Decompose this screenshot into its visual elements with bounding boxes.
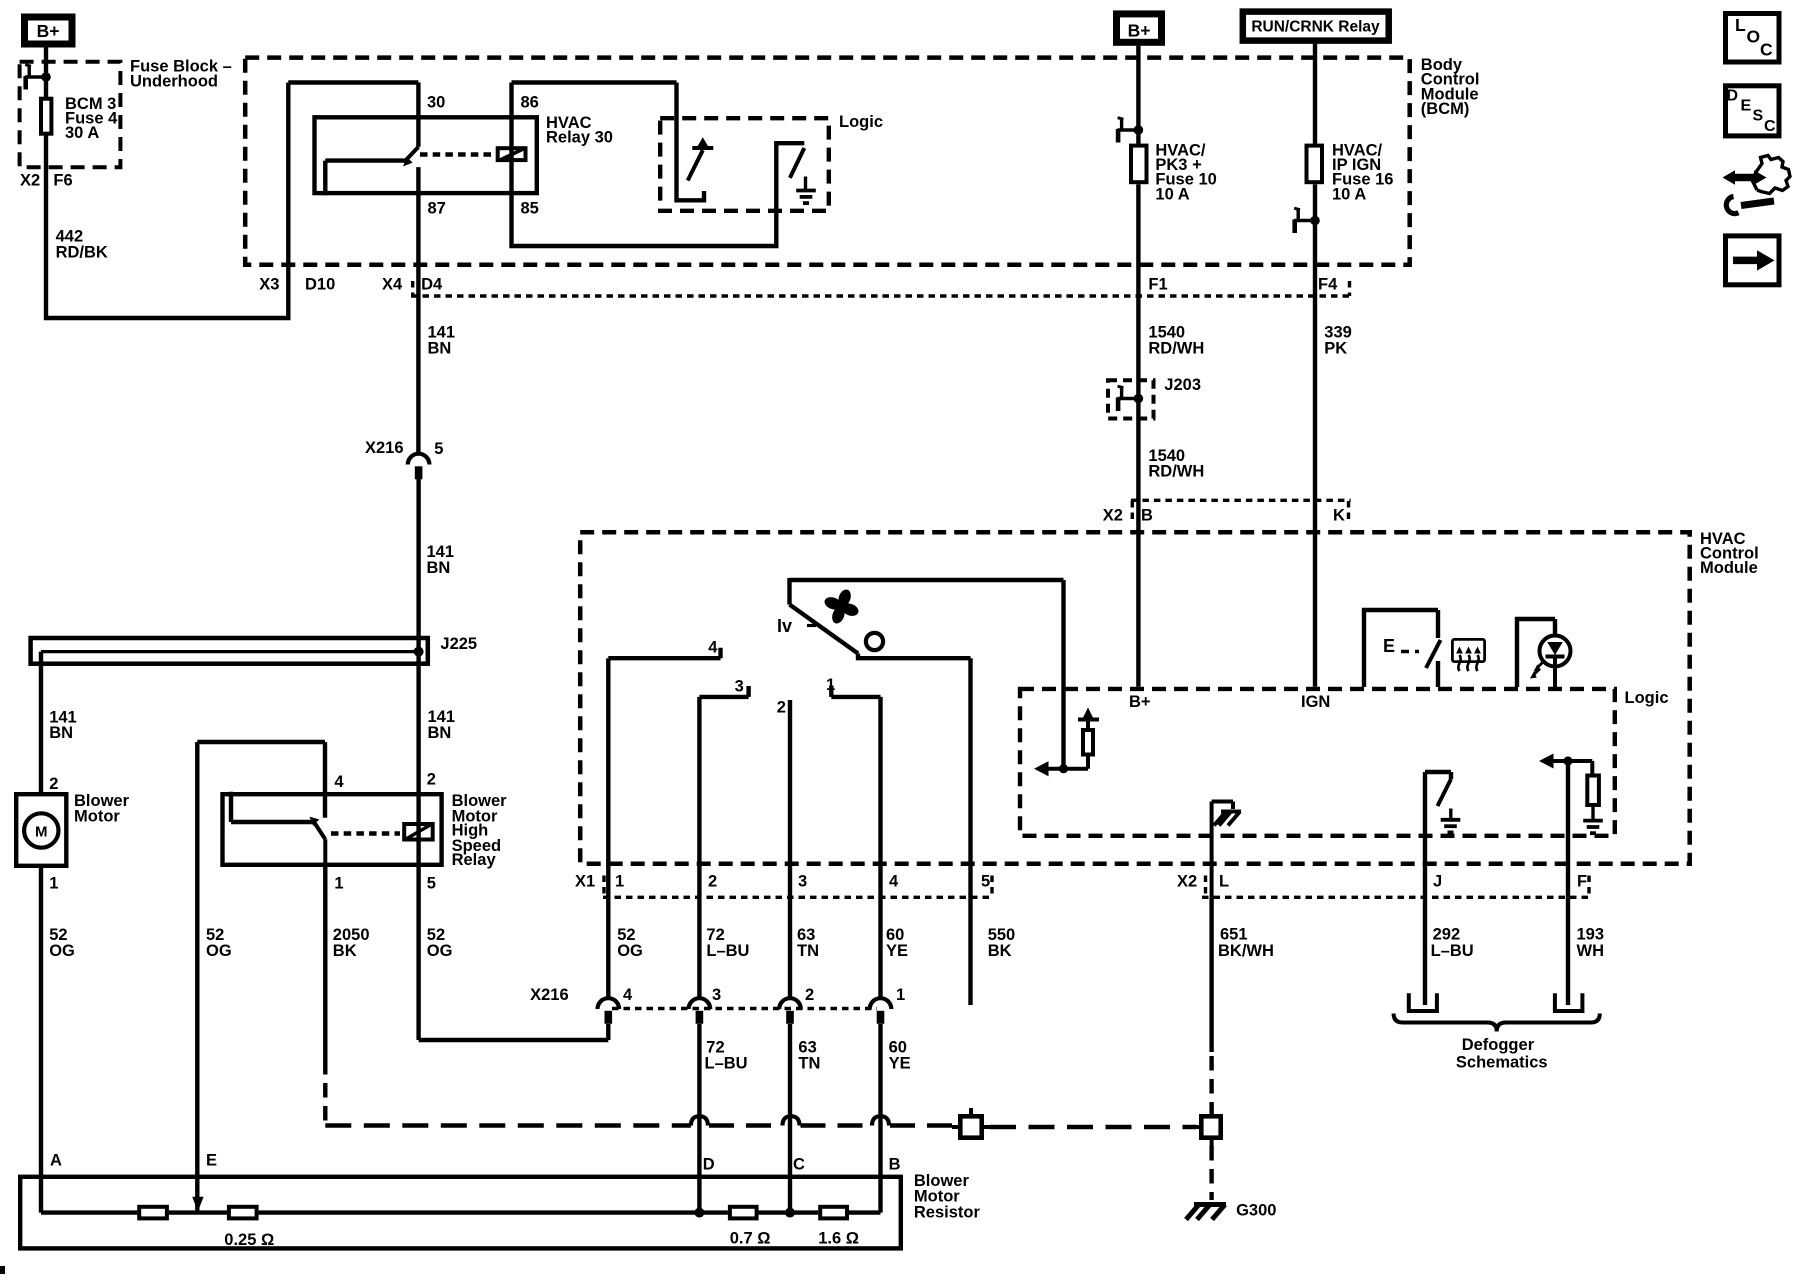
svg-text:J: J bbox=[1433, 873, 1442, 891]
splice J203 dashed box bbox=[1108, 380, 1154, 418]
svg-text:F4: F4 bbox=[1318, 276, 1338, 294]
resistor element 0.25 ohm bbox=[229, 1207, 257, 1219]
label F1 bbox=[1148, 276, 1167, 294]
defogger indicator LED bbox=[1517, 619, 1571, 687]
pull-up resistor to B+ in logic bbox=[1064, 708, 1100, 769]
label 72 L-BU lower bbox=[705, 1038, 748, 1072]
battery feed B+ terminal (BCM) bbox=[1117, 14, 1162, 42]
svg-text:PK: PK bbox=[1324, 340, 1347, 358]
label 52 OG E bbox=[206, 926, 232, 960]
label 63 TN (X1-3) bbox=[797, 926, 819, 960]
svg-text:YE: YE bbox=[889, 1055, 911, 1073]
label F4 bbox=[1318, 276, 1338, 294]
wire 63 TN (switch 2 to X1-3) bbox=[788, 710, 792, 997]
wire 193 path inside logic bbox=[1566, 761, 1570, 897]
svg-text:L: L bbox=[1219, 873, 1229, 891]
svg-text:X1: X1 bbox=[575, 873, 595, 891]
label 0.25 ohm bbox=[224, 1231, 274, 1249]
label contact 4 bbox=[708, 639, 718, 657]
label HVAC Control Module bbox=[1700, 530, 1759, 577]
svg-text:J225: J225 bbox=[440, 635, 477, 653]
label pin 87 bbox=[428, 200, 446, 218]
fan switch contact 4 bbox=[608, 648, 720, 659]
HVAC logic dashed box bbox=[1020, 689, 1615, 836]
wire 2050 BK bbox=[323, 867, 327, 1060]
svg-text:BN: BN bbox=[428, 340, 452, 358]
HVAC relay 30 outer box part1 (pin86 side) bbox=[512, 83, 705, 201]
label X216 single bbox=[365, 439, 443, 458]
wire dashed between squares bbox=[990, 1125, 1196, 1129]
label 72 L-BU (X1-2) bbox=[706, 926, 749, 960]
svg-text:TN: TN bbox=[798, 1055, 820, 1073]
svg-text:D: D bbox=[703, 1156, 715, 1174]
fuse block underhood dashed box bbox=[20, 62, 121, 167]
label 60 YE lower bbox=[889, 1038, 911, 1072]
svg-text:M: M bbox=[35, 823, 48, 840]
label 60 YE (X1-4) bbox=[886, 926, 908, 960]
svg-text:S: S bbox=[1753, 107, 1764, 124]
svg-text:Resistor: Resistor bbox=[914, 1204, 981, 1222]
wire 60 YE (switch 1 to X1-4) bbox=[878, 697, 882, 997]
fan icon bbox=[819, 584, 865, 630]
BCM logic dashed box bbox=[660, 118, 829, 211]
label Blower Motor Resistor bbox=[914, 1172, 981, 1222]
wire 52 OG (resistor E to relay 4) bbox=[197, 742, 325, 1213]
svg-text:X2: X2 bbox=[1177, 873, 1197, 891]
svg-text:2: 2 bbox=[805, 986, 814, 1004]
fuse BCM 3 Fuse 4 30A bbox=[41, 99, 51, 134]
connector labels X2 B K bbox=[1103, 507, 1345, 525]
svg-text:5: 5 bbox=[427, 875, 436, 893]
svg-text:Schematics: Schematics bbox=[1456, 1054, 1548, 1072]
defogger terminal F bbox=[1555, 993, 1583, 1011]
terminal square S201 bbox=[952, 1108, 990, 1138]
wire 193 WH bbox=[1566, 897, 1570, 1005]
wire 1540 RD/WH fuse10 to HVAC logic bbox=[1136, 184, 1140, 687]
svg-text:X2: X2 bbox=[1103, 507, 1123, 525]
wire 72 L-BU (X216 to resistor D) bbox=[697, 1024, 701, 1213]
X2 connector dashed row bbox=[1202, 896, 1591, 899]
svg-text:E: E bbox=[1741, 97, 1752, 114]
svg-text:B+: B+ bbox=[1128, 21, 1151, 41]
svg-text:86: 86 bbox=[521, 94, 539, 112]
svg-text:1: 1 bbox=[49, 875, 58, 893]
resistor chain wire bbox=[41, 1210, 881, 1214]
fan switch contact 1 bbox=[831, 686, 880, 697]
svg-text:10 A: 10 A bbox=[1155, 185, 1189, 203]
label 193 WH bbox=[1577, 925, 1605, 960]
X1 connector dashed row bbox=[603, 896, 994, 899]
wire 651 BK/WH bbox=[1209, 897, 1213, 1114]
label fuse BCM 3 bbox=[65, 95, 118, 142]
icon DESC bbox=[1726, 86, 1780, 136]
label 52 OG motor bbox=[49, 926, 75, 960]
wire 52 OG (switch 4 to X1-1) bbox=[606, 658, 610, 997]
bracket X1 bbox=[602, 876, 605, 898]
HVAC Control Module dashed box bbox=[580, 532, 1690, 864]
svg-text:2: 2 bbox=[777, 699, 786, 717]
connector X216-1 bbox=[870, 998, 892, 1024]
splice bar J225 bbox=[31, 638, 428, 664]
svg-text:C: C bbox=[1764, 118, 1776, 135]
X216 row dashed link bbox=[612, 1007, 877, 1010]
svg-text:BN: BN bbox=[428, 724, 452, 742]
label relay pin 4 bbox=[334, 773, 344, 791]
svg-text:J203: J203 bbox=[1164, 376, 1201, 394]
wire dashed 550 to ground run bbox=[325, 1060, 952, 1126]
svg-text:D: D bbox=[1727, 87, 1739, 104]
svg-text:1: 1 bbox=[896, 986, 905, 1004]
label 63 TN lower bbox=[798, 1038, 820, 1072]
fan switch contact 3 bbox=[699, 686, 748, 697]
label Body Control Module BCM bbox=[1421, 56, 1480, 118]
label 1540 RD/WH lower bbox=[1148, 447, 1204, 481]
svg-text:OG: OG bbox=[617, 942, 643, 960]
svg-text:4: 4 bbox=[708, 639, 718, 657]
svg-text:X216: X216 bbox=[530, 986, 569, 1004]
wire 442 RD/BK bbox=[46, 83, 418, 319]
label Fuse Block Underhood bbox=[130, 58, 232, 91]
wire 141 BN to blower motor bbox=[39, 652, 43, 792]
label pin 86 bbox=[521, 94, 539, 112]
wire RUN/CRNK to fuse 16 bbox=[1313, 44, 1317, 144]
label Defogger Schematics bbox=[1456, 1036, 1548, 1072]
fan switch wiper blade bbox=[790, 578, 971, 658]
take-off clip at B+ feed bbox=[25, 65, 51, 90]
svg-text:2: 2 bbox=[708, 873, 717, 891]
svg-text:Relay: Relay bbox=[452, 851, 497, 869]
svg-text:YE: YE bbox=[886, 942, 908, 960]
wire dashed to G300 bbox=[1209, 1146, 1213, 1200]
X2 B K connector dashed row bbox=[1131, 500, 1351, 519]
svg-text:D10: D10 bbox=[305, 276, 335, 294]
svg-text:TN: TN bbox=[797, 942, 819, 960]
wire 60 YE (X216 to resistor B) bbox=[878, 1024, 882, 1213]
svg-text:RD/WH: RD/WH bbox=[1148, 340, 1204, 358]
label 651 BK/WH bbox=[1218, 925, 1274, 960]
svg-text:Iv: Iv bbox=[777, 616, 792, 636]
wire B+ to fuse 10 bbox=[1136, 46, 1140, 144]
chassis ground L output bbox=[1212, 802, 1241, 898]
fan switch rotor terminal circle bbox=[866, 633, 883, 650]
svg-text:5: 5 bbox=[981, 873, 990, 891]
svg-text:BK: BK bbox=[333, 942, 357, 960]
defogger switch E bbox=[1364, 610, 1441, 687]
svg-text:B: B bbox=[889, 1156, 901, 1174]
wire 141 BN (X216 to J225) bbox=[416, 479, 420, 652]
label 442 RD/BK bbox=[56, 227, 108, 261]
relay coil HVAC Relay 30 bbox=[498, 148, 526, 160]
connector X216-4 bbox=[598, 998, 620, 1024]
label X216 row bbox=[530, 986, 569, 1004]
wire relay pin 87 (141 BN) bbox=[416, 167, 420, 452]
label 141 BN mid bbox=[427, 543, 455, 577]
label IGN (logic) bbox=[1301, 693, 1330, 711]
svg-text:L–BU: L–BU bbox=[1431, 942, 1474, 960]
signal arrow (fan switch sense) bbox=[1034, 761, 1064, 776]
svg-text:L–BU: L–BU bbox=[705, 1055, 748, 1073]
svg-text:3: 3 bbox=[712, 986, 721, 1004]
page corner mark bbox=[0, 1266, 5, 1274]
connector labels X3 D10 X4 D4 bbox=[259, 276, 443, 294]
label 292 L-BU bbox=[1431, 925, 1474, 960]
relay switch blade with arrow bbox=[403, 147, 418, 167]
wire fan switch feed into logic bbox=[1061, 580, 1065, 769]
logic switch to ground (J output) bbox=[1425, 772, 1451, 819]
label contact 2 bbox=[777, 699, 786, 717]
label 0.7 ohm bbox=[730, 1230, 771, 1248]
label HVAC Relay 30 bbox=[546, 114, 613, 147]
label resistor pin B bbox=[889, 1156, 901, 1174]
svg-text:O: O bbox=[1747, 26, 1761, 46]
wire 63 TN (X216 to resistor C) bbox=[788, 1024, 792, 1213]
ground under F resistor bbox=[1583, 821, 1603, 834]
HS relay switch common bbox=[231, 792, 314, 822]
svg-text:Defogger: Defogger bbox=[1462, 1036, 1535, 1054]
connector labels X2 F6 bbox=[20, 172, 73, 190]
svg-text:Relay 30: Relay 30 bbox=[546, 129, 613, 147]
svg-text:X3: X3 bbox=[259, 276, 279, 294]
label J203 bbox=[1164, 376, 1201, 394]
svg-text:RD/WH: RD/WH bbox=[1148, 463, 1204, 481]
svg-text:C: C bbox=[793, 1156, 805, 1174]
label X216 pin 4 bbox=[623, 986, 633, 1004]
wire 651 path inside logic bbox=[1423, 772, 1427, 897]
label Blower Motor bbox=[74, 792, 130, 826]
svg-text:K: K bbox=[1333, 507, 1345, 525]
label 1.6 ohm bbox=[818, 1230, 859, 1248]
svg-text:0.25 Ω: 0.25 Ω bbox=[224, 1231, 274, 1249]
label contact 1 bbox=[826, 676, 835, 694]
connector X216-3 bbox=[689, 998, 711, 1024]
svg-text:30: 30 bbox=[427, 94, 445, 112]
arrow E junction bbox=[192, 1197, 203, 1212]
ground G300 bbox=[1186, 1205, 1226, 1220]
bracket X2 left bbox=[1204, 876, 1207, 898]
defogger terminal J bbox=[1409, 993, 1437, 1011]
resistor element 0.7 ohm bbox=[730, 1207, 757, 1219]
defogger schematics brace bbox=[1394, 1014, 1600, 1032]
LED light arrows bbox=[1530, 662, 1544, 679]
wire 52 OG (relay 5 to X216-4) bbox=[419, 867, 609, 1040]
svg-text:4: 4 bbox=[334, 773, 344, 791]
svg-text:10 A: 10 A bbox=[1332, 185, 1366, 203]
svg-text:BK: BK bbox=[988, 942, 1012, 960]
label relay pin 2 bbox=[427, 771, 436, 789]
resistor element 1.6 ohm bbox=[820, 1207, 847, 1219]
label J225 bbox=[440, 635, 477, 653]
defogger grid icon bbox=[1452, 639, 1484, 671]
svg-text:2: 2 bbox=[49, 775, 58, 793]
label 141 BN motor bbox=[49, 708, 77, 742]
svg-text:4: 4 bbox=[889, 873, 899, 891]
label resistor pin E bbox=[206, 1152, 217, 1170]
svg-text:B+: B+ bbox=[37, 21, 60, 41]
label fuse 10 bbox=[1155, 142, 1216, 204]
svg-text:F: F bbox=[1577, 873, 1587, 891]
svg-text:D4: D4 bbox=[421, 276, 443, 294]
svg-text:BN: BN bbox=[49, 724, 73, 742]
label 2050 BK bbox=[333, 926, 370, 960]
wire 339 PK fuse16 to HVAC logic bbox=[1313, 184, 1317, 687]
svg-text:C: C bbox=[1760, 39, 1773, 59]
label 141 BN (pin87) bbox=[428, 324, 456, 358]
battery feed B+ terminal (top left) bbox=[25, 17, 73, 44]
connector labels X1 1 2 3 4 5 bbox=[575, 873, 990, 891]
wire relay pin 30 (141 BN) bbox=[416, 83, 420, 147]
svg-text:F6: F6 bbox=[53, 172, 72, 190]
svg-text:X4: X4 bbox=[382, 276, 403, 294]
svg-text:BN: BN bbox=[427, 559, 451, 577]
svg-text:3: 3 bbox=[798, 873, 807, 891]
svg-text:L: L bbox=[1735, 15, 1746, 35]
icon LOC bbox=[1726, 14, 1780, 63]
label X216 pin 2 bbox=[805, 986, 814, 1004]
svg-text:1: 1 bbox=[334, 875, 343, 893]
F sense node and pull-down bbox=[1539, 754, 1599, 821]
node C junction bbox=[785, 1208, 795, 1218]
HS relay coil bbox=[404, 824, 433, 840]
bracket F4 bbox=[1348, 281, 1351, 296]
svg-text:X216: X216 bbox=[365, 439, 404, 457]
label relay pin 5 bbox=[427, 875, 436, 893]
node logic feed junction bbox=[1059, 764, 1068, 773]
svg-text:B: B bbox=[1141, 507, 1153, 525]
icon arrow next bbox=[1726, 236, 1780, 285]
BCM output connector dashed row bbox=[411, 294, 1352, 297]
HVAC relay 30 switch box bbox=[315, 117, 537, 193]
blower motor resistor box bbox=[20, 1177, 901, 1249]
svg-text:4: 4 bbox=[623, 986, 633, 1004]
bracket X1 right bbox=[990, 876, 993, 898]
label B+ (logic) bbox=[1129, 693, 1151, 711]
svg-text:1.6 Ω: 1.6 Ω bbox=[818, 1230, 859, 1248]
logic switch to ground (drives pin 85) bbox=[790, 148, 806, 190]
svg-text:G300: G300 bbox=[1236, 1202, 1276, 1220]
svg-text:L–BU: L–BU bbox=[706, 942, 749, 960]
blower motor bbox=[16, 794, 66, 866]
label 550 BK (X1-5) bbox=[988, 926, 1016, 960]
label 52 OG (X1-1) bbox=[617, 926, 643, 960]
label 339 PK bbox=[1324, 324, 1352, 358]
icon vehicle wrench bbox=[1723, 156, 1791, 214]
wire 141 BN through relay bbox=[416, 652, 420, 867]
svg-text:E: E bbox=[1383, 636, 1395, 656]
connector X216-5 inline bbox=[408, 454, 430, 480]
blower motor high speed relay box bbox=[223, 794, 442, 865]
fuse HVAC PK3 Fuse 10 10A bbox=[1131, 146, 1147, 183]
label Logic (BCM) bbox=[839, 113, 883, 131]
svg-text:Logic: Logic bbox=[839, 113, 883, 131]
ground in BCM logic bbox=[796, 191, 816, 204]
svg-text:BK/WH: BK/WH bbox=[1218, 942, 1274, 960]
svg-text:193: 193 bbox=[1577, 925, 1605, 943]
svg-text:RD/BK: RD/BK bbox=[56, 244, 108, 262]
relay actuation dashed link bbox=[420, 152, 492, 157]
label pin 30 bbox=[427, 94, 445, 112]
bracket X2 right bbox=[1587, 876, 1590, 898]
RUN/CRNK Relay feed box bbox=[1243, 12, 1389, 41]
svg-text:IGN: IGN bbox=[1301, 693, 1330, 711]
connector labels X2 L J F bbox=[1177, 873, 1587, 891]
label X216 pin 1 bbox=[896, 986, 905, 1004]
wire 72 L-BU (switch 3 to X1-2) bbox=[697, 697, 701, 997]
svg-text:X2: X2 bbox=[20, 172, 40, 190]
svg-text:OG: OG bbox=[206, 942, 232, 960]
relay switch common lead bbox=[325, 161, 405, 196]
bracket X4 bbox=[411, 281, 414, 296]
svg-text:5: 5 bbox=[434, 440, 443, 458]
label resistor pin A bbox=[50, 1152, 62, 1170]
fuse HVAC IP IGN Fuse 16 10A bbox=[1307, 146, 1323, 183]
svg-text:87: 87 bbox=[428, 200, 446, 218]
svg-text:WH: WH bbox=[1577, 942, 1605, 960]
wire 52 OG (motor to resistor A) bbox=[39, 868, 43, 1213]
svg-text:A: A bbox=[50, 1152, 62, 1170]
svg-text:3: 3 bbox=[735, 677, 744, 695]
svg-text:1: 1 bbox=[615, 873, 624, 891]
label pin 85 bbox=[521, 200, 539, 218]
take-off clip above fuse 10 bbox=[1117, 118, 1143, 143]
logic switch to B+ (drives pin 86) bbox=[688, 137, 714, 180]
ground under J switch bbox=[1441, 820, 1461, 833]
label motor pin 2 bbox=[49, 775, 58, 793]
Body Control Module dashed box bbox=[245, 58, 1410, 265]
label contact 3 bbox=[735, 677, 744, 695]
wire B+ to fuse BCM3 bbox=[44, 48, 48, 98]
label 52 OG relay bbox=[427, 926, 453, 960]
take-off clip below fuse 16 bbox=[1294, 208, 1320, 233]
label G300 bbox=[1236, 1202, 1276, 1220]
take-off clip in J203 bbox=[1117, 386, 1143, 411]
svg-text:Motor: Motor bbox=[74, 808, 120, 826]
connector X216-2 bbox=[779, 998, 801, 1024]
HS relay actuation dashed link bbox=[331, 831, 400, 836]
terminal square G300 splice bbox=[1193, 1108, 1221, 1146]
svg-text:(BCM): (BCM) bbox=[1421, 100, 1470, 118]
node D junction bbox=[694, 1208, 704, 1218]
svg-text:OG: OG bbox=[49, 942, 75, 960]
svg-text:Module: Module bbox=[1700, 559, 1758, 577]
label Iv (fan speed) bbox=[777, 616, 816, 636]
svg-text:F1: F1 bbox=[1148, 276, 1167, 294]
label E switch bbox=[1383, 636, 1419, 656]
wire 550 BK (rotor to X1-5) bbox=[968, 658, 972, 1005]
HVAC relay 30 outer box part2 (pin85 side) bbox=[512, 83, 805, 247]
svg-text:85: 85 bbox=[521, 200, 539, 218]
svg-text:30 A: 30 A bbox=[65, 124, 99, 142]
label Blower Motor High Speed Relay bbox=[452, 792, 508, 869]
label fuse 16 bbox=[1332, 142, 1393, 204]
svg-text:0.7 Ω: 0.7 Ω bbox=[730, 1230, 771, 1248]
svg-text:1: 1 bbox=[826, 676, 835, 694]
label Logic (HVAC) bbox=[1625, 689, 1669, 707]
svg-text:OG: OG bbox=[427, 942, 453, 960]
svg-text:B+: B+ bbox=[1129, 693, 1151, 711]
svg-text:651: 651 bbox=[1220, 925, 1248, 943]
resistor element A-E bbox=[139, 1207, 167, 1219]
label relay pin 1 bbox=[334, 875, 343, 893]
label resistor pin C bbox=[793, 1156, 805, 1174]
svg-text:Logic: Logic bbox=[1625, 689, 1669, 707]
label 1540 RD/WH upper bbox=[1148, 324, 1204, 358]
label motor pin 1 bbox=[49, 875, 58, 893]
svg-text:E: E bbox=[206, 1152, 217, 1170]
label 141 BN (relay pin2) bbox=[428, 708, 456, 742]
svg-text:RUN/CRNK Relay: RUN/CRNK Relay bbox=[1251, 19, 1380, 36]
svg-text:Underhood: Underhood bbox=[130, 73, 218, 91]
fan switch contact 2 bbox=[788, 700, 792, 710]
